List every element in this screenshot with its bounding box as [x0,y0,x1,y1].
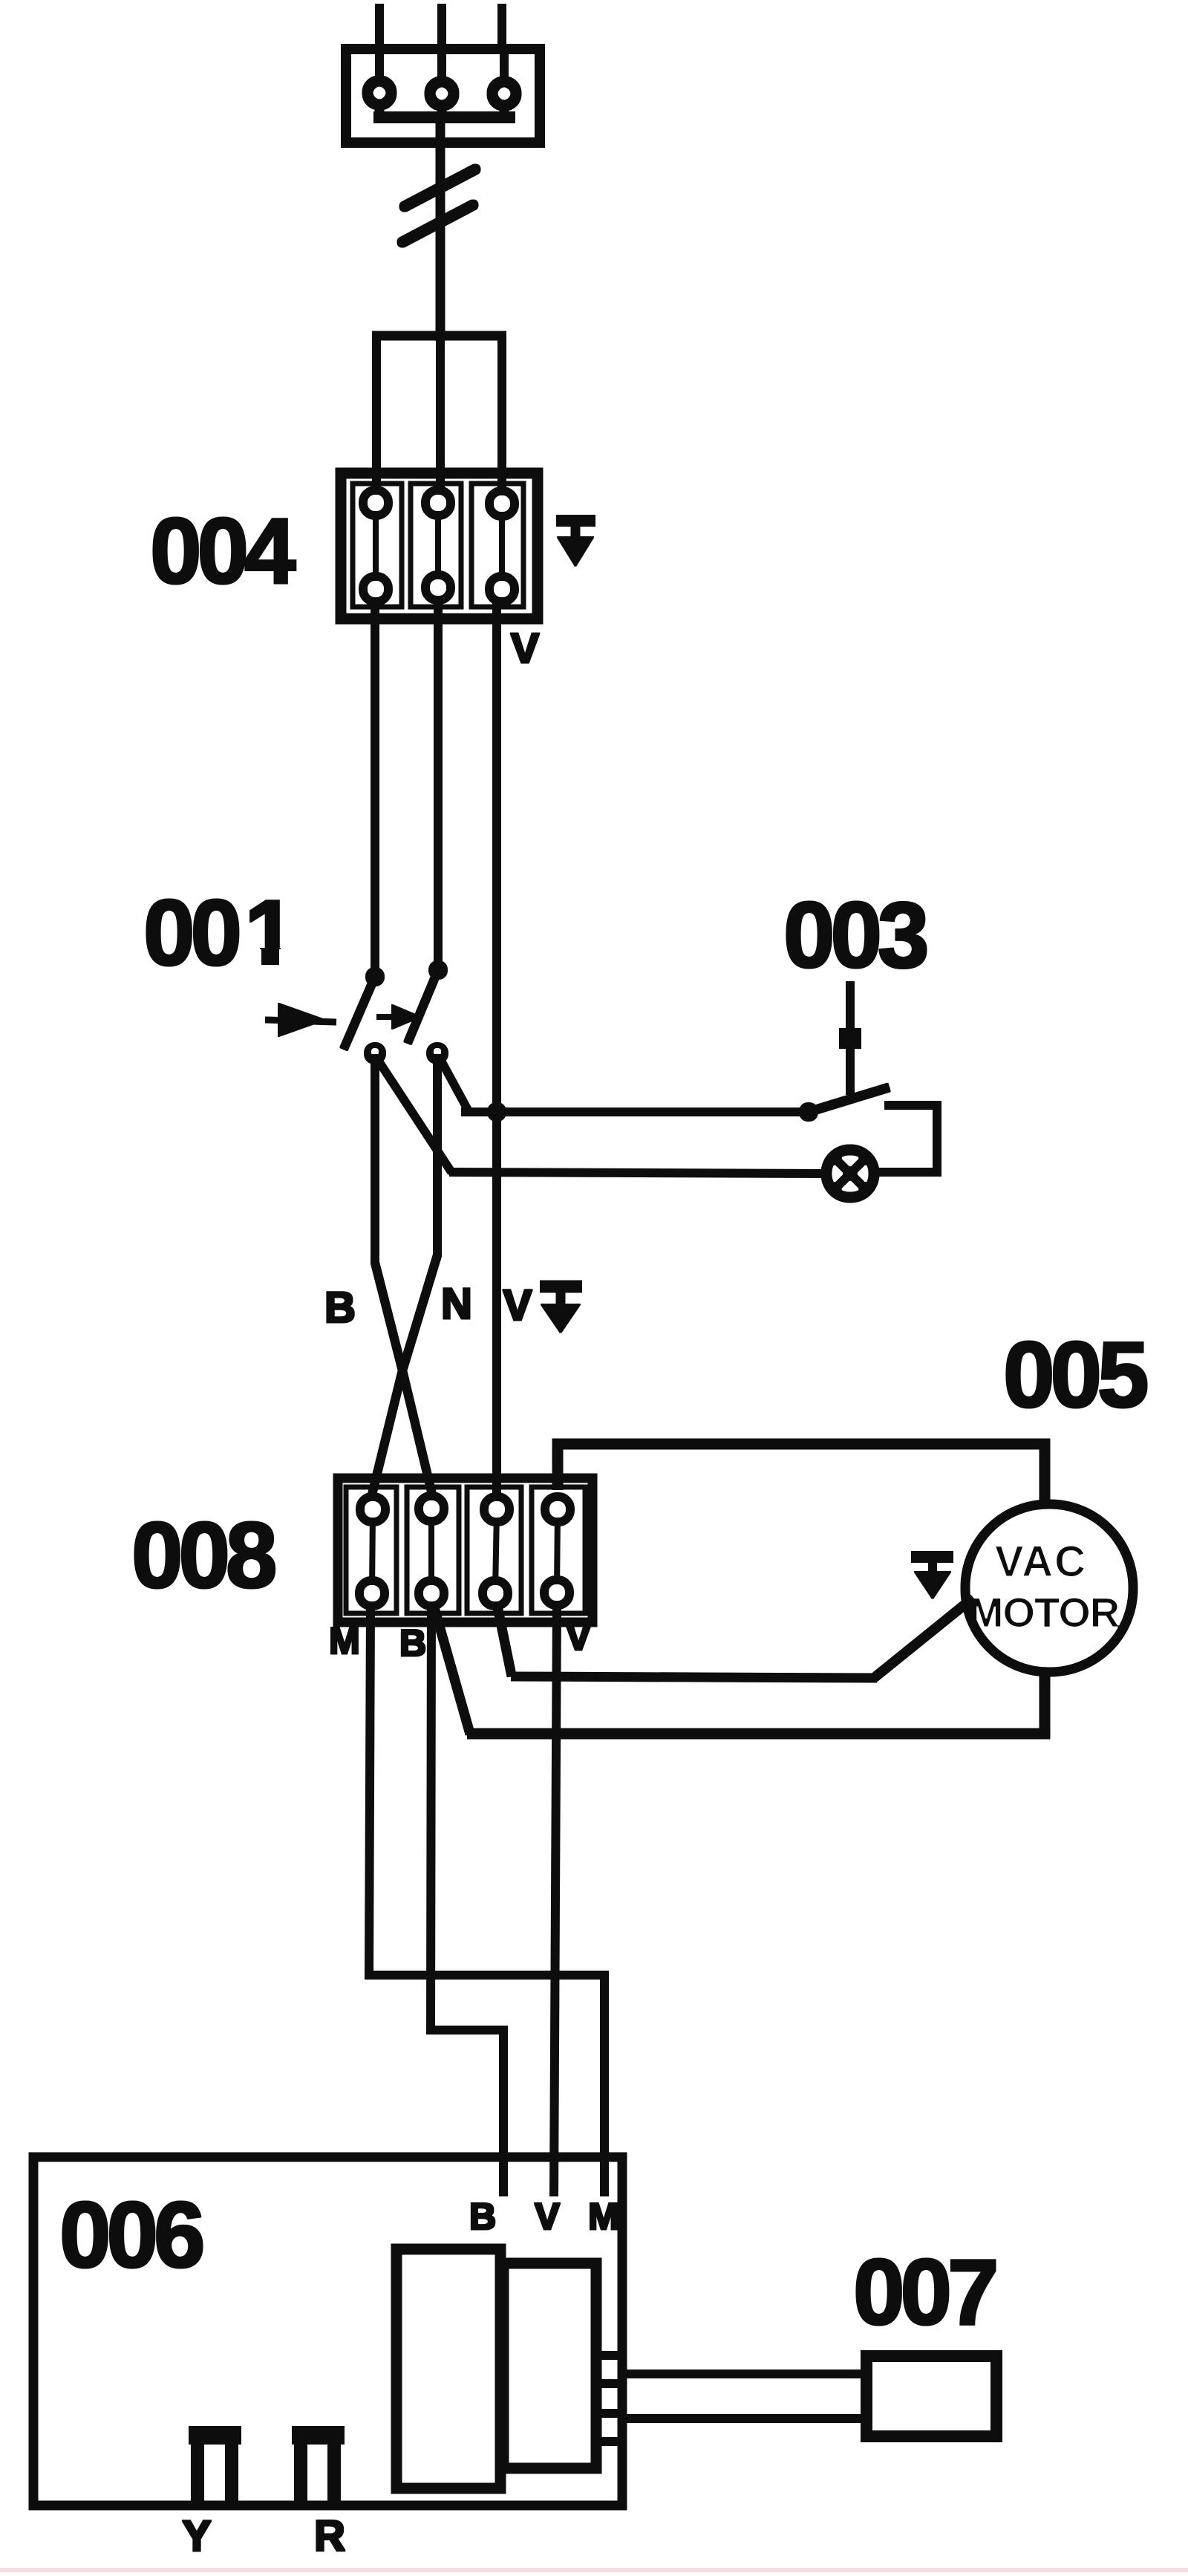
svg-text:007: 007 [853,2241,996,2344]
wire motor bottom return [468,1670,1045,1734]
motor text [969,1538,1120,1636]
svg-text:005: 005 [1003,1324,1147,1427]
wire lamp return [450,1172,828,1174]
wire feed to switch 003 [462,1108,809,1116]
wire 008 V-terminal to motor top [558,1444,1045,1506]
008 terminal 2 bottom [420,1581,443,1605]
pcb module 1 [396,2249,500,2488]
004 link 1 [373,505,378,587]
connector tab 4 [594,2438,622,2445]
svg-text:003: 003 [783,884,926,987]
svg-text:N: N [441,1280,472,1328]
wire N down from 004 [434,598,442,964]
svg-text:M: M [588,2196,619,2237]
switch 001 actuator arrow [266,1004,336,1036]
svg-text:V: V [566,1616,591,1658]
008 cell 2 [407,1487,459,1613]
008 terminal 1 top [361,1497,385,1521]
switch 001 pole 1 blade [344,977,375,1049]
svg-text:V: V [535,2196,560,2237]
wire pole2 to 003 feed [440,1058,468,1110]
plug pin lead 3 [500,53,508,82]
008 cell 3 [467,1487,521,1613]
004 cell 2 [411,484,461,607]
wire box to 007 upper [622,2370,866,2378]
plug pin lead 1 [376,53,383,80]
svg-text:V: V [503,1281,532,1330]
switch 001 pole 1 bottom contact [365,1043,385,1064]
socket 2 body [293,2427,344,2500]
connector tab 3 [594,2410,622,2417]
008 terminal 4 bottom [545,1581,569,1604]
plug pin lead 2 [438,53,446,82]
socket 1 body [189,2427,241,2500]
wire B down from 004 [371,599,379,971]
wire centre branch into 004 [437,336,444,492]
svg-text:008: 008 [131,1504,275,1607]
svg-text:B: B [469,2196,496,2237]
cord break mark 2 [402,205,473,242]
cord break mark 1 [405,169,475,206]
ground symbol at motor [912,1557,953,1598]
004 terminal 1 bottom [364,577,388,601]
008 cell 1 [346,1487,396,1613]
svg-text:006: 006 [59,2184,202,2287]
svg-text:V: V [511,625,539,672]
wire mid rail [512,1676,876,1678]
switch 001 pole 2 top contact [429,961,447,979]
pedal switch 007 body [866,2356,996,2436]
svg-text:MOTOR: MOTOR [969,1589,1120,1636]
004 terminal 2 top [426,491,450,515]
svg-text:004: 004 [150,500,296,603]
wire branch bar above 004 [373,332,506,340]
wire phase L1 into plug [376,4,383,53]
svg-text:B: B [399,1622,426,1664]
004 terminal 2 bottom [426,576,450,599]
008 terminal 2 top [420,1497,443,1520]
svg-text:VAC: VAC [995,1538,1087,1586]
wire M to control box [369,1604,604,2196]
004 terminal 1 top [364,491,388,515]
wire motor to mid rail (diagonal) [874,1597,974,1678]
004 terminal 3 bottom [490,577,514,601]
wire left branch into 004 [373,332,380,492]
wire phase L3 into plug [498,4,506,53]
switch 001 pole 2 bottom contact [427,1043,448,1064]
svg-text:R: R [314,2512,345,2560]
svg-text:M: M [329,1620,360,1662]
004 cell 3 [471,484,523,607]
wire 003 to lamp [875,1105,937,1172]
wire pole1 to lamp return [376,1058,451,1172]
switch 003 actuator stem [846,982,854,1094]
motor 005 (VAC MOTOR) [966,1505,1132,1671]
connector tab 2 [594,2380,622,2387]
008 link 1 [372,1512,373,1591]
lamp 002 [827,1151,873,1197]
plug pin 1 [368,81,391,105]
008 link 3 [495,1512,497,1591]
scan artifact pink line [0,2569,1188,2572]
plug body (mains plug) [346,49,540,143]
switch 001 pole 2 blade [408,970,438,1043]
terminal block 008 body [338,1478,593,1622]
plug pin 2 [430,82,454,105]
008 cell 4 [532,1487,585,1613]
svg-text:001: 001 [143,882,294,985]
004 link 2 [436,505,440,587]
junction node on V wire [488,1103,506,1121]
ground symbol beside 004 [557,521,595,566]
004 cell 1 [353,484,402,607]
switch 003 contact [800,1103,817,1121]
008 terminal 4 top [546,1497,569,1521]
wire 008 terminal2 to motor return [433,1603,470,1734]
008 terminal 3 top [485,1497,509,1521]
ground symbol mid [541,1287,581,1333]
wire box to 007 lower [622,2415,866,2422]
008 terminal 1 bottom [360,1581,384,1605]
wire B to control box [431,1604,503,2196]
wire supply cord down [437,119,445,340]
wire pole2 to 008 terminal M (crossing) [371,1053,437,1497]
008 terminal 3 bottom [483,1581,507,1605]
switch 001 pole 2 actuator arrow [377,1005,420,1029]
svg-text:Y: Y [183,2512,212,2560]
switch 003 blade [809,1087,889,1112]
008 link 2 [429,1512,434,1591]
004 terminal 3 top [490,492,514,515]
control box 006 body [33,2157,622,2505]
terminal block 004 body [341,473,538,619]
connector tab 1 [594,2352,622,2359]
plug pin 3 [492,82,516,105]
wire V down from 004 to 008 [493,599,500,1509]
008 link 4 [557,1512,558,1591]
wire pole1 to 008 terminal B (crossing) [375,1053,433,1497]
wire V to control box [554,1603,557,2196]
wire right branch into 004 [498,332,506,492]
plug bus bar [374,112,515,123]
svg-text:B: B [324,1284,356,1332]
wire 008 terminal3 to mid rail [497,1603,512,1676]
004 link 3 [500,505,504,587]
pcb module 2 [503,2263,596,2468]
wire phase L2 into plug [438,4,446,53]
switch 001 pole 1 top contact [366,968,384,986]
switch 003 actuator button [840,1029,861,1048]
